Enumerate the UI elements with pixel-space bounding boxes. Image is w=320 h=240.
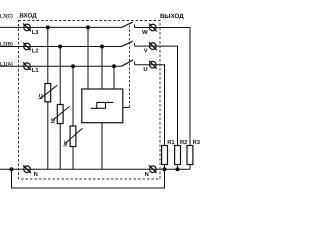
switch contact W [122, 22, 135, 27]
node load star to N [163, 167, 167, 171]
node L1-varistor branch [71, 64, 75, 68]
wire U output [135, 65, 165, 146]
enclosure dashed border [19, 21, 161, 180]
svg-text:U: U [143, 67, 147, 73]
svg-text:L1(A): L1(A) [0, 62, 13, 68]
svg-text:L3: L3 [32, 29, 40, 36]
resistor R2 [175, 146, 181, 165]
terminal L2 [23, 43, 31, 51]
svg-text:L1: L1 [32, 68, 40, 74]
node N external branch [10, 167, 14, 171]
svg-text:V: V [144, 48, 148, 54]
terminal L1 [23, 62, 31, 70]
wire R3 bottom [189, 165, 191, 170]
mechanical linkage [123, 107, 130, 109]
svg-text:ВХОД: ВХОД [19, 12, 37, 19]
switch contact U [122, 60, 135, 66]
wire varistor U1 column [47, 27, 49, 169]
wire varistor U2 column [59, 47, 61, 170]
terminal N input [23, 165, 31, 173]
wire relay box to N bus [101, 123, 103, 170]
terminal L3 [23, 24, 31, 32]
wire V output [135, 46, 178, 145]
node L2-varistor branch [58, 45, 62, 49]
svg-text:ВЫХОД: ВЫХОД [160, 13, 184, 20]
terminal U [149, 61, 157, 69]
wire varistor U3 column [72, 66, 74, 169]
wire L3 phase C input [0, 26, 122, 28]
svg-text:N: N [34, 172, 38, 178]
terminal W [149, 24, 157, 32]
hysteresis symbol [91, 102, 113, 108]
terminal V [149, 42, 157, 50]
wire L1 to relay box [113, 66, 115, 89]
resistor R3 [187, 146, 193, 165]
wire L1 phase A input [0, 65, 122, 67]
svg-text:L2(B): L2(B) [0, 42, 13, 48]
svg-text:L2: L2 [32, 47, 39, 54]
svg-text:R3: R3 [193, 139, 200, 146]
wire R1 bottom [164, 165, 166, 170]
wire L3 to relay box [87, 27, 89, 89]
terminal N output [149, 165, 157, 173]
wire N input bus [0, 168, 190, 170]
wire R2 bottom [177, 165, 179, 170]
wire L2 to relay box [101, 47, 103, 90]
resistor R1 [162, 146, 168, 165]
svg-text:N: N [145, 172, 149, 178]
node L1-relay branch [112, 64, 116, 68]
varistor U2 [51, 105, 70, 124]
node L2-relay branch [100, 45, 104, 49]
relay control unit box [82, 89, 123, 123]
node L3-varistor branch [46, 25, 50, 29]
node L3-relay branch [86, 25, 90, 29]
wire W output [135, 28, 190, 146]
varistor U3 [63, 126, 82, 147]
wire L2 phase B input [0, 46, 122, 48]
svg-text:L3(C): L3(C) [0, 14, 13, 20]
node R2 to N [176, 167, 180, 171]
varistor U1 [39, 84, 58, 102]
switch contact V [122, 41, 135, 46]
svg-text:R2: R2 [180, 139, 187, 146]
wire external N return loop [12, 169, 165, 188]
svg-text:W: W [142, 30, 148, 36]
